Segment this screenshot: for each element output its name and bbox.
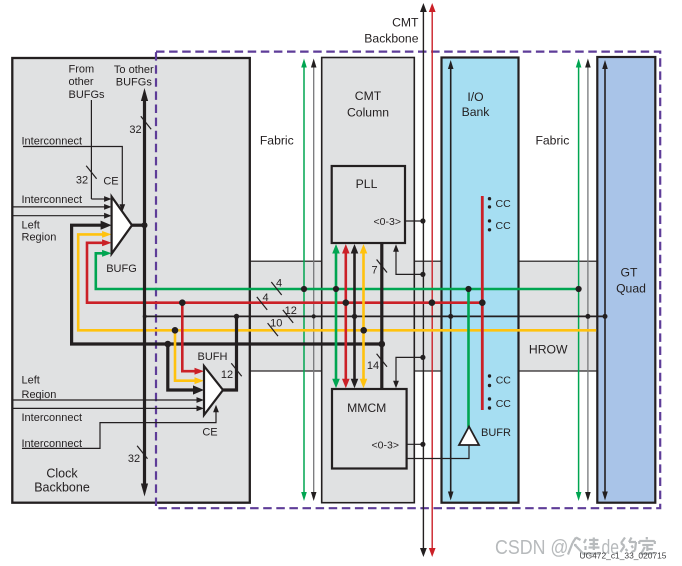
svg-text:32: 32 [128,453,140,465]
svg-text:4: 4 [276,277,282,289]
svg-text:Backbone: Backbone [34,481,90,495]
svg-text:CMT: CMT [355,89,382,103]
svg-text:4: 4 [262,292,268,304]
svg-text:BUFG: BUFG [106,263,137,275]
svg-text:Region: Region [22,389,57,401]
svg-text:CC: CC [496,198,512,210]
svg-text:other: other [69,76,94,88]
svg-text:Backbone: Backbone [364,31,418,45]
svg-text:Interconnect: Interconnect [22,438,83,450]
svg-text:CC: CC [496,375,512,387]
svg-text:CSDN @: CSDN @ [495,537,569,559]
svg-text:Interconnect: Interconnect [22,135,83,147]
svg-text:BUFGs: BUFGs [69,89,106,101]
svg-text:Region: Region [22,231,57,243]
svg-text:<0-3>: <0-3> [374,216,401,228]
svg-text:From: From [69,64,95,76]
svg-text:32: 32 [76,175,88,187]
svg-text:CC: CC [496,398,512,410]
svg-text:CE: CE [103,176,118,188]
svg-text:UG472_c1_33_020715: UG472_c1_33_020715 [580,552,668,561]
svg-text:CE: CE [202,427,217,439]
svg-text:32: 32 [129,124,141,136]
svg-text:BUFR: BUFR [481,427,511,439]
svg-text:BUFGs: BUFGs [116,77,153,89]
svg-text:Bank: Bank [462,105,491,119]
svg-text:Interconnect: Interconnect [22,412,83,424]
svg-text:<0-3>: <0-3> [372,440,399,452]
svg-text:I/O: I/O [467,90,483,104]
svg-text:Quad: Quad [616,282,646,296]
svg-text:14: 14 [367,360,379,372]
svg-text:Interconnect: Interconnect [22,194,83,206]
svg-text:Left: Left [22,374,40,386]
svg-text:PLL: PLL [356,177,378,191]
svg-text:12: 12 [221,369,233,381]
svg-text:Fabric: Fabric [535,134,569,148]
svg-text:MMCM: MMCM [347,401,386,415]
svg-text:12: 12 [285,305,297,317]
svg-text:Column: Column [347,106,389,120]
svg-text:CC: CC [496,220,512,232]
svg-text:CMT: CMT [392,16,419,30]
svg-text:10: 10 [270,318,282,330]
svg-text:7: 7 [371,265,377,277]
svg-text:Left: Left [22,219,40,231]
svg-text:GT: GT [621,266,638,280]
svg-text:To other: To other [114,64,154,76]
svg-text:Fabric: Fabric [260,134,294,148]
svg-text:BUFH: BUFH [198,351,228,363]
svg-text:Clock: Clock [46,466,78,480]
svg-text:HROW: HROW [529,343,568,357]
